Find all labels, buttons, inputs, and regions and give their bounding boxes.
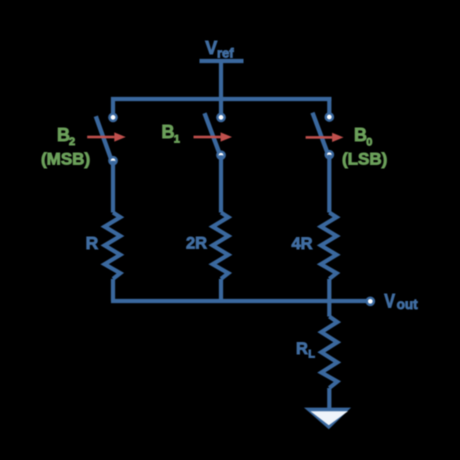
switch B2 top contact	[109, 114, 116, 121]
wire B0 switch to resistor 4R	[327, 155, 331, 213]
label Vout	[384, 290, 418, 312]
svg-text:2: 2	[69, 136, 75, 148]
svg-text:B: B	[162, 122, 175, 142]
resistor 4R	[321, 213, 337, 279]
svg-text:1: 1	[174, 133, 180, 145]
resistor R	[105, 213, 121, 279]
output node	[367, 298, 374, 305]
wire 4R to bottom bus	[327, 279, 331, 303]
svg-text:2R: 2R	[186, 235, 207, 253]
svg-text:out: out	[397, 297, 418, 312]
wire output junction to RL	[327, 299, 331, 317]
ground	[304, 408, 351, 430]
resistor RL	[321, 317, 337, 389]
svg-text:(LSB): (LSB)	[342, 149, 387, 168]
switch B0 blade	[313, 113, 328, 152]
switch B2 bottom contact	[109, 157, 116, 164]
svg-text:(MSB): (MSB)	[41, 149, 90, 168]
switch B0 bottom contact	[326, 151, 333, 158]
label RL	[296, 340, 315, 361]
wire branch B2 from bus to switch	[111, 97, 115, 114]
wire top bus	[111, 97, 331, 101]
power rail bar for Vref	[200, 59, 244, 63]
arrow for B1	[194, 132, 233, 141]
switch B1 top contact	[217, 114, 224, 121]
arrow for B0	[306, 133, 344, 142]
label B1	[162, 122, 180, 145]
switch B1 bottom contact	[217, 152, 224, 159]
wire branch B1 from bus to switch	[219, 97, 223, 114]
wire RL to ground	[327, 388, 331, 409]
wire branch B0 from bus to switch	[327, 97, 331, 114]
switch B2 blade	[96, 116, 111, 158]
label B2	[57, 125, 75, 148]
svg-text:4R: 4R	[292, 235, 313, 253]
label B0	[354, 125, 372, 148]
svg-text:0: 0	[366, 136, 372, 148]
wire Vref bar to top bus	[219, 61, 223, 99]
wire B1 switch to resistor 2R	[219, 155, 223, 212]
svg-text:R: R	[296, 340, 308, 358]
wire R to bottom bus	[111, 279, 115, 301]
svg-text:R: R	[86, 233, 99, 253]
wire 2R to bottom bus	[219, 279, 223, 301]
wire B2 switch to resistor R	[111, 161, 115, 213]
svg-text:L: L	[308, 349, 315, 361]
label Vref	[205, 38, 234, 61]
svg-text:ref: ref	[217, 46, 234, 61]
switch B0 top contact	[326, 113, 333, 120]
svg-text:V: V	[205, 38, 217, 58]
switch B1 blade	[205, 113, 220, 152]
svg-text:V: V	[384, 290, 395, 312]
svg-text:B: B	[354, 125, 367, 145]
arrow for B2	[87, 132, 126, 141]
wire bottom bus to output node	[111, 299, 367, 303]
resistor 2R	[213, 213, 229, 279]
